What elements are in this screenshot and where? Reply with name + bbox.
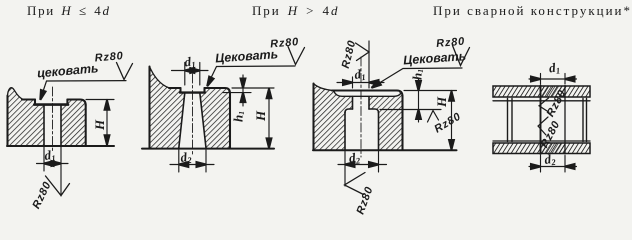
svg-text:Rz80: Rz80: [270, 36, 300, 50]
counterbore 3 shoulders with fillets: [345, 109, 379, 113]
dimension h1/H (3) top extension: [404, 90, 457, 92]
svg-text:При сварной конструкции*: При сварной конструкции*: [433, 3, 632, 18]
dimension H (3) line: [451, 91, 453, 151]
dimension d2 (2) line: [170, 164, 214, 166]
leader Цековать 3: [374, 68, 463, 87]
dimension H line: [106, 100, 108, 146]
top plate hole dense section: [541, 86, 565, 97]
roughness check bottom 3: [345, 173, 366, 195]
small hole 3 walls: [353, 97, 370, 110]
dimension d1 (4) extensions: [541, 74, 566, 85]
dimension d1 extensions: [44, 147, 61, 196]
dimension d2 (3) extensions: [345, 152, 379, 187]
roughness check mid right 3: [428, 111, 439, 123]
svg-text:Rz80: Rz80: [436, 36, 466, 50]
block 1 bottom edge with H extension: [7, 145, 114, 147]
hole 1 walls: [44, 105, 61, 146]
roughness check bottom 1: [46, 176, 70, 196]
roughness check 2: [288, 47, 305, 65]
svg-text:Rz80: Rz80: [94, 50, 124, 64]
block 2 bottom edge with H extension: [142, 148, 274, 150]
spotface floor 3: [334, 92, 401, 97]
dimension d2 (2) extensions: [179, 150, 206, 172]
block 3 bottom edge with H extension: [313, 149, 457, 151]
block 2 right edge: [229, 94, 231, 149]
block 1 top surface: [22, 100, 86, 106]
svg-text:При H > 4d: При H > 4d: [252, 3, 339, 18]
dimension d1 (4) line: [529, 78, 577, 80]
svg-text:H: H: [434, 96, 449, 108]
svg-text:H: H: [253, 110, 268, 122]
block 3 left edge: [312, 84, 314, 150]
dimension H (2) line: [268, 88, 270, 148]
roughness check lower 4: [538, 117, 548, 135]
centerline 1: [52, 87, 54, 152]
svg-text:При H ≤ 4d: При H ≤ 4d: [27, 3, 111, 18]
counterbore 2 steps: [181, 88, 205, 92]
block 1 left edge: [6, 96, 8, 146]
leader цековать 1: [41, 81, 126, 98]
dimension d1 (2) extensions: [185, 63, 200, 86]
block 3 break curve: [314, 84, 335, 91]
roughness check upper 4: [539, 98, 549, 112]
roughness check top right 3: [453, 46, 470, 66]
tapered hole 2 walls: [179, 93, 206, 148]
step extension line 3: [380, 109, 441, 111]
tube bore wall right: [564, 86, 566, 155]
dimension H ext top: [86, 99, 114, 101]
dimension h1 (2) floor extension: [223, 92, 251, 94]
dimension d1 line: [37, 163, 69, 165]
dimension h1 (2) top extension: [232, 87, 274, 89]
block 1 hatched body: [8, 88, 86, 146]
roughness check top 1: [117, 63, 133, 80]
weld seam line under top plate: [493, 100, 590, 102]
svg-text:H: H: [92, 119, 107, 131]
dimension d1 (3) extensions: [353, 41, 370, 88]
counterbore 1 floor: [34, 103, 68, 106]
counterbore 3 walls: [345, 112, 379, 150]
block 3 hatched body: [314, 84, 403, 150]
counterbore 2 floor: [180, 91, 205, 93]
dimension d2 (4) extensions: [541, 156, 566, 173]
centerline 3: [360, 57, 362, 157]
block 2 break curve: [150, 67, 171, 89]
block 1 right edge: [85, 105, 87, 146]
centerline 2: [192, 74, 194, 156]
block 2 left edge: [148, 67, 150, 149]
dimension d2 (3) line: [338, 164, 387, 166]
dimension h1 (2) line: [242, 75, 244, 106]
block 3 right edge: [401, 96, 403, 150]
block 2 hatched body: [150, 67, 231, 149]
dimension h1 (3) line: [418, 78, 420, 122]
block 2 top surface: [169, 88, 230, 94]
top plate hatched: [493, 86, 590, 97]
dimension d2 (4) line: [529, 166, 577, 168]
counterbore 1 steps: [35, 100, 67, 105]
dimension d1 (2) line: [172, 70, 209, 72]
left wall lines: [508, 99, 513, 142]
block 3 top surface: [332, 91, 403, 97]
bottom plate hole dense section: [541, 143, 565, 154]
roughness check on d1 extension 3: [356, 43, 370, 61]
tube bore wall left: [540, 86, 542, 155]
right wall lines: [583, 99, 587, 142]
bottom plate hatched: [493, 143, 590, 154]
leader Цековать 2: [208, 66, 295, 85]
dimension d1 (3) line: [337, 82, 384, 84]
block 1 break wave: [8, 88, 24, 100]
weld seam line above bottom plate: [493, 140, 590, 142]
